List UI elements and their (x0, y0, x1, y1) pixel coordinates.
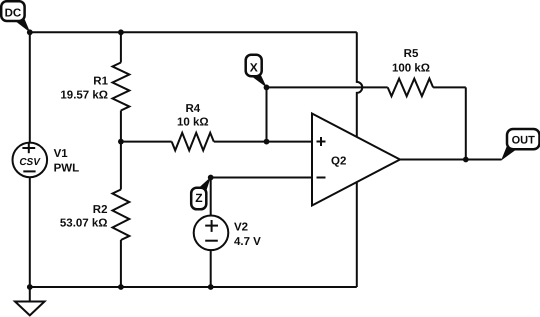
svg-text:CSV: CSV (19, 157, 41, 168)
svg-text:Q2: Q2 (331, 155, 346, 167)
svg-text:R5: R5 (404, 48, 419, 60)
svg-text:R1: R1 (93, 76, 108, 88)
junction R1/R2/R4 node (118, 139, 124, 145)
svg-text:DC: DC (5, 7, 22, 19)
wire op-amp output (400, 159, 502, 161)
svg-text:OUT: OUT (512, 135, 536, 147)
junction output node (463, 157, 469, 163)
wire Z node to op-amp - input (211, 177, 312, 179)
wire R5 right to feedback corner (433, 86, 466, 88)
svg-text:R2: R2 (93, 204, 108, 216)
svg-text:PWL: PWL (54, 163, 80, 175)
node OUT (501, 129, 540, 161)
resistor R1 (113, 63, 130, 111)
junction R1 top (118, 29, 124, 35)
wire feedback vertical down to output (465, 87, 467, 159)
wire R4 to op-amp + input (214, 141, 312, 143)
wire op-amp V+ supply with hop over R5 wire (357, 32, 362, 137)
junction R2 at bottom rail (118, 284, 124, 290)
junction Z at - input wire (208, 175, 214, 181)
wire V2 bottom lead (210, 250, 212, 287)
node DC (1, 1, 30, 32)
junction V2 at bottom rail (208, 284, 214, 290)
ground (15, 287, 45, 315)
resistor R2 (113, 190, 130, 241)
svg-text:R4: R4 (185, 103, 200, 115)
wire op-amp V- supply (356, 182, 358, 287)
op-amp Q2 (312, 114, 400, 206)
svg-text:4.7 V: 4.7 V (234, 236, 261, 248)
wire R2 branch top lead (120, 142, 122, 190)
svg-text:53.07 kΩ: 53.07 kΩ (60, 217, 108, 229)
wire V2 top lead (210, 178, 212, 216)
junction at DC node (27, 29, 33, 35)
node X (246, 55, 267, 88)
svg-text:19.57 kΩ: 19.57 kΩ (60, 90, 108, 102)
wire X node to R5 left (267, 86, 388, 88)
svg-text:Z: Z (195, 191, 202, 205)
wire middle horizontal (R1/R2 node to R4) (121, 141, 172, 143)
junction X at R5 wire (264, 85, 270, 91)
svg-text:10 kΩ: 10 kΩ (177, 117, 209, 129)
wire R1 branch top lead (120, 32, 122, 62)
wire left vertical upper (DC to V1) (29, 32, 31, 142)
wire top rail (30, 31, 357, 33)
wire X node vertical (to + input wire) (266, 87, 268, 141)
svg-text:V2: V2 (234, 221, 248, 233)
voltage source V2 (194, 216, 229, 251)
wire left vertical lower (V1 to bottom rail) (29, 177, 31, 287)
svg-text:X: X (250, 60, 258, 74)
wire R2 bottom lead (120, 240, 122, 287)
wire bottom rail (30, 286, 357, 288)
wire R1 bottom lead (120, 111, 122, 142)
resistor R4 (172, 133, 214, 151)
voltage source V1 (13, 143, 48, 178)
resistor R5 (388, 79, 433, 97)
svg-text:V1: V1 (54, 148, 69, 160)
junction ground rail left (27, 284, 33, 290)
junction X at + input wire (264, 139, 270, 145)
node Z (191, 177, 211, 209)
svg-text:100 kΩ: 100 kΩ (392, 63, 430, 75)
